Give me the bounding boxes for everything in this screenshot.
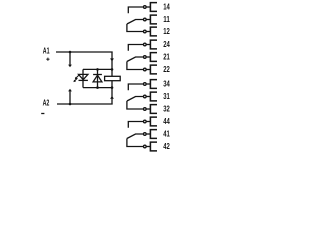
- contact NO wire to 24: [128, 45, 143, 51]
- plug socket circle 32: [144, 108, 147, 111]
- plug socket circle 41: [144, 133, 147, 136]
- freewheel diode V1 wire: [97, 69, 99, 87]
- terminal clamp 11: [150, 15, 157, 24]
- wire A2 riser: [111, 88, 113, 105]
- terminal number 42: [163, 142, 170, 151]
- terminal number 24: [163, 40, 170, 49]
- svg-text:24: 24: [163, 40, 170, 49]
- wire stub 21: [146, 56, 150, 58]
- terminal clamp 32: [150, 105, 157, 114]
- wire stub 34: [146, 83, 150, 85]
- svg-text:32: 32: [163, 105, 170, 114]
- contact COM arm 21: [127, 57, 143, 62]
- terminal clamp A1 (plug pin, arrow down): [68, 52, 72, 67]
- contact COM arm 41: [127, 134, 143, 139]
- junction dot coil rail top: [111, 68, 114, 71]
- terminal number 41: [163, 130, 170, 139]
- plug socket circle 44: [144, 120, 147, 123]
- contact NO wire to 44: [128, 122, 143, 128]
- wire stub 31: [146, 96, 150, 98]
- wire stub 42: [146, 146, 150, 148]
- svg-text:12: 12: [163, 27, 170, 36]
- terminal number 11: [163, 15, 170, 24]
- wire stub 12: [146, 31, 150, 33]
- svg-text:31: 31: [163, 92, 170, 101]
- terminal label A2: [43, 99, 50, 108]
- terminal number 21: [163, 53, 170, 62]
- terminal clamp 42: [150, 142, 157, 151]
- terminal clamp 12: [150, 27, 157, 36]
- wire stub 22: [146, 69, 150, 71]
- svg-text:21: 21: [163, 53, 170, 62]
- wire stub 41: [146, 133, 150, 135]
- contact NO wire to 34: [128, 84, 143, 90]
- contact COM arm 11: [127, 20, 143, 25]
- LED D1 (indicator, pointing down): [79, 74, 88, 80]
- terminal clamp 24: [150, 40, 157, 49]
- wire stub 24: [146, 44, 150, 46]
- terminal clamp A2 (plug pin, arrow up): [68, 89, 72, 104]
- terminal label A1: [43, 47, 50, 56]
- wire stub 11: [146, 19, 150, 21]
- coil top rail: [83, 68, 112, 70]
- svg-text:11: 11: [163, 15, 170, 24]
- plug socket circle 24: [144, 43, 147, 46]
- plug arrow on A2 riser: [110, 96, 114, 99]
- contact NC wire to 12: [127, 24, 143, 32]
- LED branch wire: [82, 69, 84, 87]
- plug socket circle 34: [144, 83, 147, 86]
- wire stub 44: [146, 121, 150, 123]
- contact COM arm 31: [127, 97, 143, 102]
- wire stub 32: [146, 108, 150, 110]
- plug socket circle 21: [144, 56, 147, 59]
- junction dot diode top: [96, 68, 99, 71]
- terminal clamp 44: [150, 117, 157, 126]
- plug arrow on A1 feed: [110, 58, 114, 61]
- contact NO wire to 14: [128, 7, 143, 13]
- contact NC wire to 32: [127, 101, 143, 109]
- junction A1 clamp: [69, 51, 72, 54]
- svg-text:42: 42: [163, 142, 170, 151]
- svg-text:34: 34: [163, 80, 170, 89]
- plug socket circle 31: [144, 95, 147, 98]
- terminal clamp 22: [150, 65, 157, 74]
- plus polarity mark: [46, 58, 49, 61]
- terminal clamp 14: [150, 3, 157, 12]
- plug socket circle 12: [144, 30, 147, 33]
- terminal number 31: [163, 92, 170, 101]
- terminal number 44: [163, 117, 170, 126]
- terminal clamp 34: [150, 80, 157, 89]
- minus polarity mark: [41, 113, 44, 115]
- contact groups: [127, 3, 170, 152]
- contact NC wire to 42: [127, 139, 143, 147]
- plug socket circle 42: [144, 145, 147, 148]
- LED emission arrows: [73, 75, 78, 82]
- terminal clamp 41: [150, 130, 157, 139]
- terminal number 22: [163, 65, 170, 74]
- contact NC wire to 22: [127, 62, 143, 70]
- wire A1 horizontal: [56, 51, 113, 53]
- svg-text:22: 22: [163, 65, 170, 74]
- plug socket circle 11: [144, 18, 147, 21]
- svg-text:44: 44: [163, 117, 170, 126]
- terminal number 12: [163, 27, 170, 36]
- coil feed wire mid: [111, 69, 113, 87]
- junction dot coil rail bottom: [111, 86, 114, 89]
- terminal clamp 21: [150, 53, 157, 62]
- svg-text:41: 41: [163, 130, 170, 139]
- svg-text:14: 14: [163, 3, 170, 12]
- plug socket circle 22: [144, 68, 147, 71]
- junction dot diode bottom: [96, 86, 99, 89]
- coil bottom rail: [83, 87, 112, 89]
- wire stub 14: [146, 6, 150, 8]
- freewheel diode V1 (pointing up): [93, 75, 102, 82]
- wire A2 horizontal: [57, 103, 113, 105]
- terminal clamp 31: [150, 92, 157, 101]
- terminal number 32: [163, 105, 170, 114]
- junction A2 clamp: [69, 103, 72, 106]
- plug socket circle 14: [144, 6, 147, 9]
- terminal number 34: [163, 80, 170, 89]
- wire A1 feed down: [111, 52, 113, 70]
- relay coil K1: [105, 76, 121, 80]
- terminal number 14: [163, 3, 170, 12]
- svg-text:A2: A2: [43, 99, 50, 108]
- svg-text:A1: A1: [43, 47, 50, 56]
